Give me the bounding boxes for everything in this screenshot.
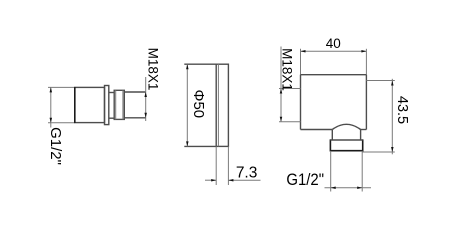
arrow right 7.3 left [211, 179, 216, 182]
wire: phi50 top extension line [184, 63, 216, 65]
ring collar [114, 90, 124, 119]
neck top line [109, 92, 114, 94]
dome left side [331, 130, 333, 141]
wire: M18X1 top extension line [279, 88, 301, 90]
svg-text:7.3: 7.3 [236, 165, 258, 182]
arrow left 7.3 right [228, 179, 233, 182]
dimension line phi50 [186, 64, 188, 146]
dimension line 7.3 left segment [205, 179, 216, 181]
wire: 40 left extension line [300, 49, 302, 75]
dimension line M18X1 (left view) [145, 77, 147, 121]
svg-text:M18X1: M18X1 [280, 48, 295, 91]
dome right side [360, 130, 362, 141]
dimension line 7.3 right segment [228, 179, 260, 181]
body left edge [300, 75, 302, 130]
body top edge [301, 74, 367, 76]
arrow up G1/2 top [50, 87, 53, 92]
arrow up 43.5 [391, 81, 394, 86]
arrow down 43.5 [391, 147, 394, 152]
body bottom edge left segment [301, 129, 333, 131]
wire: 40 right extension line [365, 49, 367, 75]
wire: 7.3 right extension line [227, 146, 229, 185]
dome shoulder arc [332, 124, 360, 129]
thread bottom line [124, 117, 145, 119]
svg-text:40: 40 [326, 36, 341, 51]
svg-text:M18X1: M18X1 [145, 48, 160, 91]
wire: 7.3 left extension line [215, 146, 217, 185]
collar nut [330, 139, 362, 150]
dimension line 40 [301, 50, 367, 52]
escutcheon plate rectangle [216, 64, 228, 146]
arrow up M18X1 right view [280, 89, 283, 94]
wire: G1/2 left extension line (right view) [330, 151, 332, 192]
svg-text:G1/2": G1/2" [286, 171, 324, 189]
dimension line G1/2 (left view) [50, 87, 52, 127]
ring chamfer right [122, 90, 124, 119]
arrow right 40 [361, 50, 366, 53]
arrow left 40 [301, 50, 306, 53]
body rear face thick edge [74, 87, 76, 123]
arrow right G1/2 right view [357, 187, 362, 190]
dimension line G1/2 (right view) [325, 187, 372, 189]
arrow down phi50 bottom [186, 141, 189, 146]
arrow down M18X1 right view [280, 117, 283, 122]
wire: G1/2 right extension line (right view) [361, 151, 363, 192]
thread top line [124, 91, 145, 93]
body right edge [365, 75, 367, 130]
wire: 43.5 bottom extension line [363, 151, 395, 153]
arrow up phi50 top [186, 64, 189, 69]
body bottom edge right segment [360, 129, 366, 131]
neck bottom line [109, 117, 114, 119]
wire: phi50 bottom extension line [184, 145, 216, 147]
escutcheon inner face line [217, 64, 219, 146]
svg-text:G1/2": G1/2" [47, 127, 64, 165]
dimension line 43.5 [391, 79, 393, 155]
wire: M18X1 bottom extension line [279, 121, 301, 123]
dimension line M18X1 (right view) [280, 47, 282, 122]
svg-text:Φ50: Φ50 [190, 89, 207, 118]
arrow up M18X1 top [144, 92, 147, 97]
wire: G1/2 top extension line [48, 86, 75, 88]
wire: G1/2 bottom extension line [48, 122, 75, 124]
svg-text:43.5: 43.5 [394, 96, 410, 124]
collar top face line [330, 139, 362, 141]
flange lip plate [105, 86, 109, 125]
arrow down M18X1 bottom [144, 113, 147, 118]
arrow left G1/2 right view [331, 187, 336, 190]
body cylinder (left view) [75, 87, 105, 122]
arrow down G1/2 bottom [50, 118, 53, 123]
ring chamfer left [115, 90, 117, 119]
wire: 43.5 top extension line [366, 80, 394, 82]
